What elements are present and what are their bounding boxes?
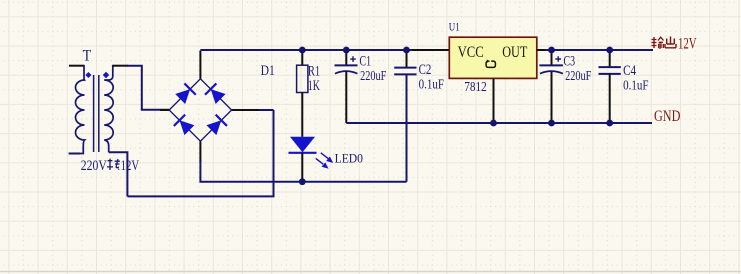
wire secondary bottom to bottom rail xyxy=(109,152,128,196)
svg-text:C3: C3 xyxy=(564,53,576,69)
junction C3 top xyxy=(548,47,555,54)
resistor R1 pin top xyxy=(301,50,303,65)
svg-text:T: T xyxy=(83,47,92,64)
capacitor C1 pin bottom xyxy=(345,72,347,123)
capacitor C2 plates xyxy=(394,68,416,75)
wire right vertex to riser xyxy=(258,109,274,111)
junction C4 top xyxy=(606,47,613,54)
bridge diode top-left xyxy=(175,83,196,104)
svg-text:220uF: 220uF xyxy=(565,68,592,83)
svg-text:220uF: 220uF xyxy=(360,68,387,83)
bridge diode bottom-left xyxy=(174,115,195,136)
capacitor C1 top plate xyxy=(335,64,358,66)
capacitor C3 bottom plate (curved) xyxy=(540,71,563,73)
capacitor C3 top plate xyxy=(539,64,563,66)
bridge rectifier D1 pins xyxy=(160,51,259,163)
capacitor C4 plates xyxy=(599,67,621,74)
junction C2 top xyxy=(403,47,410,54)
junction C4 bottom xyxy=(606,120,613,127)
wire secondary top to bridge xyxy=(127,66,169,110)
bridge diode bottom-right xyxy=(206,115,227,136)
capacitor C4 pin top xyxy=(609,50,611,67)
svg-text:GND: GND xyxy=(654,108,680,125)
junction LED bottom xyxy=(299,178,306,185)
led LED0 arrow 1 xyxy=(321,153,332,162)
wire top rail xyxy=(200,49,412,51)
rotation glyph xyxy=(486,61,495,67)
capacitor C3 pin bottom xyxy=(551,72,553,123)
capacitor C3 plus sign xyxy=(555,56,561,62)
svg-text:C2: C2 xyxy=(419,62,432,78)
capacitor C4 pin bottom xyxy=(609,74,611,123)
led LED0 arrow 2 xyxy=(316,158,327,167)
regulator U1 input pin xyxy=(412,49,450,51)
svg-text:C1: C1 xyxy=(360,53,372,69)
bridge rectifier D1 diamond xyxy=(169,79,231,141)
svg-text:U1: U1 xyxy=(449,20,460,34)
svg-text:D1: D1 xyxy=(261,63,275,79)
capacitor C1 plus sign xyxy=(350,56,356,62)
capacitor C1 bottom plate (curved) xyxy=(335,71,358,73)
regulator U1 body xyxy=(449,37,537,78)
svg-text:C4: C4 xyxy=(623,63,637,79)
resistor R1 pin bottom xyxy=(301,93,303,137)
transformer T secondary winding xyxy=(104,65,113,152)
svg-text:1K: 1K xyxy=(308,78,320,94)
transformer T secondary pin top stub xyxy=(113,65,128,67)
svg-text:LED0: LED0 xyxy=(335,151,363,166)
capacitor C2 pin bottom / wire to LED rail xyxy=(406,74,408,181)
led LED0 triangle xyxy=(290,137,315,153)
wire output rail xyxy=(545,49,653,51)
svg-text:OUT: OUT xyxy=(502,44,528,61)
sheet bottom border xyxy=(0,271,741,273)
capacitor C2 pin top xyxy=(406,50,408,68)
net label 输出12V : 出 glyph xyxy=(665,37,676,48)
svg-text:0.1uF: 0.1uF xyxy=(419,78,445,93)
led LED0 cathode bar xyxy=(289,152,317,154)
transformer T primary pin 2 (bottom-left) xyxy=(69,153,80,155)
svg-text:0.1uF: 0.1uF xyxy=(623,78,649,93)
resistor R1 body xyxy=(297,65,308,92)
led LED0 pin bottom xyxy=(301,153,303,182)
capacitor C1 pin top xyxy=(345,50,347,65)
wire GND rail xyxy=(346,122,652,124)
junction U1 gnd xyxy=(490,120,497,127)
regulator U1 ground pin xyxy=(493,78,495,123)
junction R1 top xyxy=(299,47,306,54)
regulator U1 output pin xyxy=(537,49,546,51)
junction C3 bottom xyxy=(548,120,555,127)
wire bridge bottom to LED rail xyxy=(200,160,406,182)
wire bottom rail xyxy=(127,110,273,196)
svg-text:220V: 220V xyxy=(81,158,107,174)
transformer T primary winding xyxy=(69,65,85,154)
transformer T polarity dot secondary xyxy=(103,72,109,78)
transformer T core xyxy=(94,75,99,152)
net label 输出12V : 输 glyph xyxy=(652,37,664,48)
transformer T polarity dot primary xyxy=(85,72,91,78)
junction C1 top xyxy=(343,47,350,54)
svg-text:12V: 12V xyxy=(121,158,140,174)
svg-text:VCC: VCC xyxy=(458,44,484,61)
svg-text:12V: 12V xyxy=(678,35,697,52)
bridge diode top-right xyxy=(205,83,226,104)
capacitor C3 pin top xyxy=(551,50,553,65)
transformer T primary pin 1 (top-left) xyxy=(69,65,84,67)
svg-text:7812: 7812 xyxy=(464,79,487,94)
label 220V转12V : 转 glyph xyxy=(107,159,120,170)
